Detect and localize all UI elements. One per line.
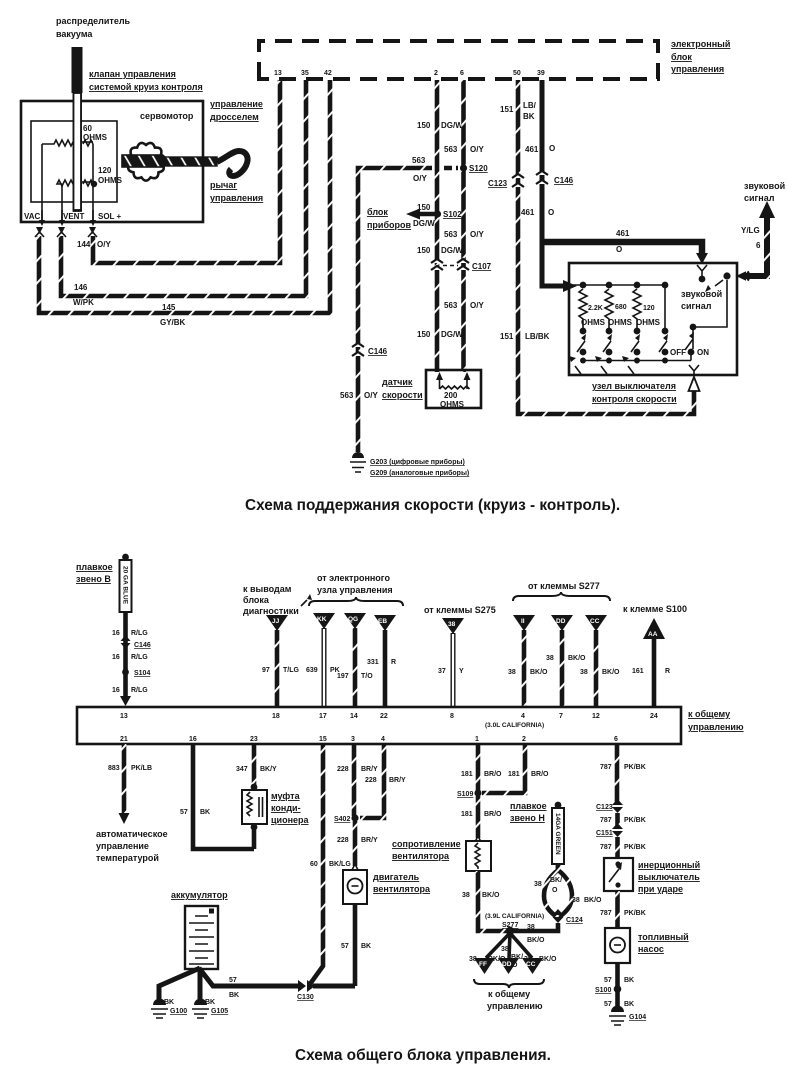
svg-text:24: 24 (650, 713, 658, 720)
label: к общему управлению (688, 709, 744, 732)
bottom rail (580, 353, 691, 364)
svg-text:BR/Y: BR/Y (361, 766, 378, 773)
svg-text:C123: C123 (596, 804, 613, 811)
servo motor box (21, 101, 203, 222)
svg-text:PK/BK: PK/BK (624, 844, 646, 851)
svg-text:680: 680 (615, 304, 627, 311)
control lever hook (217, 151, 248, 176)
svg-text:6: 6 (460, 70, 464, 77)
servo inner box (31, 121, 117, 202)
wire 60 BK/LG pin15 (310, 744, 351, 984)
svg-text:787: 787 (600, 764, 612, 771)
svg-text:BK: BK (164, 999, 174, 1006)
wire pin6 563 O/Y down to speed sensor (461, 80, 466, 372)
wire 181 BR/O pin2 (482, 744, 549, 793)
svg-text:G209 (аналоговые приборы): G209 (аналоговые приборы) (370, 469, 469, 477)
bottom fork and hollow arrow of switch box (689, 365, 700, 391)
connector C146 (fuse wire) (121, 635, 151, 649)
svg-text:ON: ON (697, 348, 709, 357)
svg-text:DG/W: DG/W (413, 219, 435, 228)
wire 347 BK/Y pin23 (236, 744, 277, 786)
svg-text:C124: C124 (566, 917, 583, 924)
label: сопротивление вентилятора (392, 839, 461, 861)
svg-text:R: R (665, 668, 670, 675)
svg-text:13: 13 (274, 70, 282, 77)
svg-text:145: 145 (162, 303, 176, 312)
svg-text:150: 150 (417, 121, 431, 130)
svg-text:LB/BK: LB/BK (525, 332, 550, 341)
connector C151 (596, 823, 623, 837)
svg-text:T/LG: T/LG (283, 667, 299, 674)
svg-text:787: 787 (600, 910, 612, 917)
svg-text:OFF: OFF (670, 348, 686, 357)
svg-text:97: 97 (262, 667, 270, 674)
svg-text:S120: S120 (469, 164, 488, 173)
svg-text:AA: AA (648, 631, 658, 638)
svg-text:GY/BK: GY/BK (160, 318, 186, 327)
svg-text:рычаг: рычаг (210, 180, 237, 190)
svg-text:57: 57 (604, 1001, 612, 1008)
svg-text:461: 461 (616, 229, 630, 238)
svg-text:S100: S100 (595, 987, 611, 994)
svg-text:двигатель: двигатель (373, 872, 420, 882)
svg-text:CC: CC (590, 618, 600, 625)
connector EB triangle (374, 615, 396, 631)
fan resistor component (466, 836, 491, 871)
svg-text:S402: S402 (334, 816, 350, 823)
A/C clutch component (242, 784, 267, 849)
svg-text:Схема общего блока управления.: Схема общего блока управления. (295, 1047, 551, 1064)
svg-text:O: O (552, 887, 558, 894)
svg-text:151: 151 (500, 105, 514, 114)
top rail with taps (572, 282, 668, 289)
svg-text:21: 21 (120, 736, 128, 743)
svg-text:T/O: T/O (361, 673, 373, 680)
svg-text:управление: управление (210, 99, 263, 109)
svg-text:O: O (616, 245, 622, 254)
horn feed wire Y/LG (744, 273, 767, 279)
svg-text:к общему: к общему (488, 989, 530, 999)
svg-text:1: 1 (475, 736, 479, 743)
svg-text:563: 563 (444, 301, 458, 310)
brace under triangles (474, 979, 544, 988)
svg-text:C107: C107 (472, 262, 492, 271)
svg-text:звуковой: звуковой (681, 289, 722, 299)
fan motor component (343, 864, 367, 904)
svg-text:228: 228 (337, 766, 349, 773)
svg-text:BK: BK (624, 1001, 634, 1008)
wire 181 BR/O to fan resistor (461, 796, 502, 838)
svg-text:BK: BK (205, 999, 215, 1006)
svg-text:OHMS: OHMS (608, 318, 633, 327)
label: рычаг управления (210, 180, 263, 203)
svg-text:O/Y: O/Y (97, 240, 111, 249)
svg-text:23: 23 (250, 736, 258, 743)
svg-text:O: O (548, 208, 554, 217)
middle contact dots with OFF ON (580, 348, 710, 357)
svg-text:звено B: звено B (76, 574, 111, 584)
connector DD triangle (551, 615, 573, 631)
electronic control unit dashed box (259, 41, 658, 79)
svg-text:вакуума: вакуума (56, 29, 93, 39)
label: муфта кондиционера (271, 791, 310, 825)
wire 787 PK/BK to fuel pump (600, 891, 646, 928)
ground G203/G209 (350, 452, 469, 477)
svg-text:автоматическое: автоматическое (96, 829, 168, 839)
wire 38 BK/O resistor to S277 (462, 871, 508, 931)
svg-text:38: 38 (527, 924, 535, 931)
svg-text:OHMS: OHMS (83, 133, 108, 142)
wire 57 BK battery feed (229, 977, 239, 999)
servo gear wheel (127, 143, 165, 181)
connector C124 (510, 909, 583, 931)
svg-text:BK/: BK/ (550, 877, 562, 884)
svg-text:13: 13 (120, 713, 128, 720)
svg-text:563: 563 (444, 145, 458, 154)
servo valve stem overlay (74, 93, 82, 210)
svg-text:узла управления: узла управления (317, 585, 393, 595)
svg-text:PK/BK: PK/BK (624, 764, 646, 771)
battery ground wires (159, 968, 300, 1004)
svg-text:муфта: муфта (271, 791, 301, 801)
svg-text:вентилятора: вентилятора (392, 851, 450, 861)
connector QG triangle (344, 613, 366, 629)
svg-text:BR/Y: BR/Y (361, 837, 378, 844)
actuator rod (hatched) (162, 157, 217, 166)
resistor 120 OHMS wiring (57, 144, 123, 222)
svg-text:C146: C146 (368, 347, 388, 356)
label: звуковой сигнал (in box) (681, 289, 722, 311)
svg-text:563: 563 (444, 230, 458, 239)
wire 38 BK/O loop to C124 (534, 864, 602, 917)
label: от электронного узла управления (309, 573, 403, 606)
svg-text:60: 60 (310, 861, 318, 868)
svg-text:температурой: температурой (96, 853, 159, 863)
svg-text:(3.9L CALIFORNIA): (3.9L CALIFORNIA) (485, 913, 544, 920)
svg-text:звуковой: звуковой (744, 181, 785, 191)
svg-text:LB/: LB/ (523, 101, 537, 110)
connector C130 (297, 980, 355, 1001)
wire 37 Y (double line) (438, 633, 464, 706)
connector arrow at right edge of box (736, 271, 749, 281)
svg-text:BK/O: BK/O (482, 892, 500, 899)
speed sensor box (426, 370, 481, 409)
svg-text:C151: C151 (596, 830, 613, 837)
svg-text:S102: S102 (443, 210, 462, 219)
ECU pin numbers (274, 70, 545, 77)
label: плавкое звено B (76, 562, 113, 584)
svg-text:2: 2 (522, 736, 526, 743)
svg-text:выключатель: выключатель (638, 872, 700, 882)
svg-text:17: 17 (319, 713, 327, 720)
wire 38 BK/O (II) (508, 630, 548, 706)
wire 461 branch to horn contact (542, 242, 702, 253)
splice S109 (457, 789, 482, 798)
svg-text:BR/Y: BR/Y (389, 777, 406, 784)
svg-text:228: 228 (337, 837, 349, 844)
svg-text:20 GA BLUE: 20 GA BLUE (122, 566, 129, 605)
svg-text:C130: C130 (297, 994, 314, 1001)
svg-text:G203 (цифровые приборы): G203 (цифровые приборы) (370, 458, 465, 466)
wire 57 BK pin16 (180, 744, 254, 849)
connector 38 triangle (442, 618, 464, 634)
splice S104 (122, 669, 150, 677)
resistor 120 OHMS (633, 289, 641, 328)
svg-text:G104: G104 (629, 1014, 646, 1021)
svg-text:37: 37 (438, 668, 446, 675)
fuel pump component (605, 928, 630, 963)
svg-text:OHMS: OHMS (636, 318, 661, 327)
svg-text:R: R (391, 659, 396, 666)
svg-text:R/LG: R/LG (131, 687, 148, 694)
wire pin2 150 DG/W down to speed sensor (435, 80, 440, 372)
label: двигатель вентилятора (373, 872, 431, 894)
svg-text:O/Y: O/Y (470, 230, 484, 239)
svg-text:O: O (549, 144, 555, 153)
svg-text:16: 16 (189, 736, 197, 743)
svg-text:BK/O: BK/O (527, 937, 545, 944)
lower arm arrows crossing bottom (569, 356, 634, 374)
svg-text:57: 57 (229, 977, 237, 984)
svg-text:BK/O: BK/O (530, 669, 548, 676)
svg-text:12: 12 (592, 713, 600, 720)
right column wire (664, 285, 666, 331)
svg-text:сигнал: сигнал (681, 301, 712, 311)
svg-text:C123: C123 (488, 179, 508, 188)
label: управление дросселем (210, 99, 263, 122)
svg-text:14: 14 (350, 713, 358, 720)
svg-text:60: 60 (83, 124, 92, 133)
svg-text:150: 150 (417, 246, 431, 255)
svg-text:200: 200 (444, 391, 458, 400)
svg-text:BR/O: BR/O (484, 771, 502, 778)
svg-text:BK/O: BK/O (602, 669, 620, 676)
svg-text:блока: блока (243, 595, 270, 605)
svg-text:146: 146 (74, 283, 88, 292)
svg-text:7: 7 (559, 713, 563, 720)
connector C107 (431, 259, 492, 271)
label: топливный насос (638, 932, 689, 954)
svg-text:диагностики: диагностики (243, 606, 299, 616)
svg-text:2.2K: 2.2K (588, 305, 603, 312)
svg-text:Y/LG: Y/LG (741, 226, 760, 235)
svg-text:OHMS: OHMS (98, 176, 123, 185)
label: блок приборов (367, 207, 412, 230)
svg-text:BR/O: BR/O (484, 811, 502, 818)
svg-text:O/Y: O/Y (470, 301, 484, 310)
svg-text:к клемме S100: к клемме S100 (623, 604, 687, 614)
wire 228 BR/Y to fan motor (337, 821, 378, 866)
speed control switch assembly box (569, 263, 737, 375)
svg-text:управление: управление (96, 841, 149, 851)
svg-text:аккумулятор: аккумулятор (171, 890, 228, 900)
svg-text:15: 15 (319, 736, 327, 743)
connector AA arrow up (632, 618, 670, 706)
svg-text:системой круиз контроля: системой круиз контроля (89, 82, 203, 92)
svg-text:38: 38 (572, 897, 580, 904)
svg-text:CC: CC (526, 961, 536, 968)
wire 787 PK/BK pin6 (600, 744, 646, 803)
wire 883 PK/LB pin21 (108, 744, 152, 824)
connector KK triangle (313, 613, 335, 629)
svg-text:управлению: управлению (688, 722, 744, 732)
svg-text:151: 151 (500, 332, 514, 341)
wire 181 BR/O pin1 (461, 744, 502, 791)
ground G100 (151, 999, 187, 1019)
wire 228 BR/Y pin3 (337, 744, 378, 816)
battery (185, 906, 218, 969)
svg-text:BK: BK (523, 112, 535, 121)
connector C123 (488, 174, 524, 188)
svg-text:VENT: VENT (63, 212, 84, 221)
svg-text:3: 3 (351, 736, 355, 743)
svg-text:узел выключателя: узел выключателя (592, 381, 676, 391)
svg-text:C146: C146 (134, 642, 151, 649)
label: датчик скорости (382, 377, 423, 400)
svg-text:38: 38 (534, 881, 542, 888)
svg-text:от клеммы S277: от клеммы S277 (528, 581, 600, 591)
wire pin50 151 LB/BK to switch assembly (518, 80, 694, 414)
svg-text:R/LG: R/LG (131, 630, 148, 637)
svg-text:приборов: приборов (367, 220, 412, 230)
svg-text:22: 22 (380, 713, 388, 720)
svg-text:DG/W: DG/W (441, 330, 463, 339)
wire 145 GY/BK : VAC to pin 42 (39, 80, 330, 313)
svg-text:DD: DD (502, 961, 512, 968)
svg-text:347: 347 (236, 766, 248, 773)
svg-text:16: 16 (112, 630, 120, 637)
fusible link H 14GA GREEN (552, 802, 564, 864)
svg-text:насос: насос (638, 944, 664, 954)
svg-text:вентилятора: вентилятора (373, 884, 431, 894)
svg-text:SOL +: SOL + (98, 212, 122, 221)
label: инерционный выключатель при ударе (638, 860, 700, 894)
label: узел выключателя контроля скорости (592, 381, 677, 404)
svg-text:38: 38 (546, 655, 554, 662)
connector C123 (lower) (596, 799, 623, 813)
svg-text:DD: DD (556, 618, 566, 625)
svg-text:сопротивление: сопротивление (392, 839, 461, 849)
label: от клеммы S277 (513, 581, 610, 601)
resistor 680 OHMS (605, 289, 613, 328)
svg-text:BK: BK (361, 943, 371, 950)
fusible link B 20 GA BLUE (120, 554, 132, 612)
svg-text:конди-: конди- (271, 803, 301, 813)
svg-text:Схема поддержания скорости (кр: Схема поддержания скорости (круиз - конт… (245, 497, 620, 514)
svg-text:57: 57 (180, 809, 188, 816)
wire 97 T/LG (262, 630, 299, 706)
svg-text:FF: FF (479, 961, 487, 968)
wire 563 O/Y horizontal to riser (358, 168, 432, 452)
connector JJ triangle (266, 615, 288, 631)
svg-text:4: 4 (521, 713, 525, 720)
svg-text:Y: Y (459, 668, 464, 675)
svg-text:461: 461 (525, 145, 539, 154)
switch arm arrows row (577, 332, 694, 352)
wire 38 BK/O (DD) (546, 630, 586, 706)
svg-text:38: 38 (448, 621, 456, 628)
svg-text:управления: управления (210, 193, 263, 203)
svg-text:BK/Y: BK/Y (260, 766, 277, 773)
svg-text:38: 38 (508, 669, 516, 676)
svg-text:161: 161 (632, 668, 644, 675)
label: электронный блок управления (671, 39, 730, 74)
connector C146 (pin39 wire) (536, 171, 574, 185)
svg-text:150: 150 (417, 330, 431, 339)
wire 16 R/LG fuse to bus pin13 (112, 612, 148, 706)
svg-text:120: 120 (643, 305, 655, 312)
svg-text:4: 4 (381, 736, 385, 743)
svg-text:228: 228 (365, 777, 377, 784)
vacuum valve stem (black bar) (72, 47, 83, 211)
label: автоматическое управление температурой (96, 829, 168, 863)
connector CC triangle (bottom) (522, 958, 543, 974)
svg-text:6: 6 (756, 241, 761, 250)
svg-text:распределитель: распределитель (56, 16, 131, 26)
svg-text:181: 181 (508, 771, 520, 778)
svg-text:OHMS: OHMS (581, 318, 606, 327)
svg-text:(3.0L CALIFORNIA): (3.0L CALIFORNIA) (485, 722, 544, 729)
svg-text:563: 563 (412, 156, 426, 165)
inertia switch component (604, 858, 633, 891)
svg-text:S109: S109 (457, 791, 473, 798)
svg-text:563: 563 (340, 391, 354, 400)
svg-text:G100: G100 (170, 1008, 187, 1015)
svg-text:38: 38 (462, 892, 470, 899)
svg-text:DG/W: DG/W (441, 246, 463, 255)
svg-text:38: 38 (501, 946, 509, 953)
svg-text:к общему: к общему (688, 709, 730, 719)
svg-text:BK: BK (624, 977, 634, 984)
resistor lower taps (580, 328, 669, 335)
connector CC triangle (585, 615, 607, 631)
svg-text:W/PK: W/PK (73, 298, 94, 307)
svg-text:дросселем: дросселем (210, 112, 259, 122)
svg-text:топливный: топливный (638, 932, 689, 942)
horn switch contact (690, 272, 731, 349)
svg-text:VAC: VAC (24, 212, 41, 221)
svg-text:197: 197 (337, 673, 349, 680)
svg-text:C146: C146 (554, 176, 574, 185)
svg-text:II: II (521, 618, 525, 625)
svg-text:BR/O: BR/O (531, 771, 549, 778)
label: клапан управления системой круиз контроля (89, 69, 203, 92)
splice S120 (444, 164, 488, 173)
wire 639 PK (double line) (306, 628, 340, 706)
svg-text:звено H: звено H (510, 813, 545, 823)
svg-text:57: 57 (604, 977, 612, 984)
resistor 2.2K OHMS (579, 289, 587, 328)
splice S102 with arrow to instrument cluster (406, 209, 462, 220)
connector C146 (left riser) (352, 343, 388, 356)
svg-text:KK: KK (317, 616, 327, 623)
svg-text:57: 57 (341, 943, 349, 950)
svg-text:JJ: JJ (272, 618, 280, 625)
svg-text:G105: G105 (211, 1008, 228, 1015)
svg-text:50: 50 (513, 70, 521, 77)
svg-text:787: 787 (600, 817, 612, 824)
svg-text:BK/LG: BK/LG (329, 861, 351, 868)
svg-text:883: 883 (108, 765, 120, 772)
svg-text:DG/W: DG/W (441, 121, 463, 130)
svg-text:электронный: электронный (671, 39, 730, 49)
svg-text:сигнал: сигнал (744, 193, 775, 203)
svg-text:6: 6 (614, 736, 618, 743)
svg-text:датчик: датчик (382, 377, 413, 387)
bus bottom pin numbers (120, 736, 618, 743)
svg-text:от клеммы S275: от клеммы S275 (424, 605, 496, 615)
svg-text:PK/LB: PK/LB (131, 765, 152, 772)
